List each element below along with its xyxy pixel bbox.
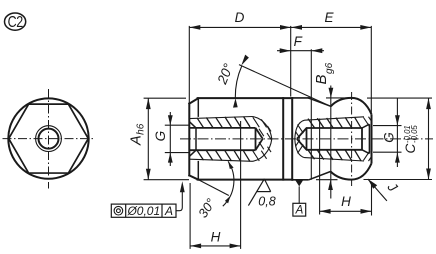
- label G right: [381, 132, 396, 143]
- front view outer circle: [8, 98, 88, 178]
- roughness symbol 0,8: [248, 179, 270, 206]
- right hole: thread slashes bottom band: [308, 150, 361, 161]
- label A h6: [129, 123, 147, 146]
- 20 deg arc: [235, 66, 242, 98]
- concentricity frame: [111, 204, 176, 217]
- svg-text:D: D: [235, 10, 245, 25]
- C2 logo: [5, 13, 26, 30]
- svg-text:C2: C2: [8, 14, 24, 32]
- datum A symbol: [295, 180, 303, 187]
- front view hexagon: [9, 104, 89, 173]
- left hole: thread band outer lines: [189, 117, 252, 162]
- right hole: mouth chamfers: [362, 124, 369, 153]
- label 20deg: [214, 61, 236, 87]
- dimension C: [364, 98, 433, 179]
- right hole: thread band outer lines: [305, 117, 365, 161]
- dimension G left: [165, 112, 190, 166]
- left head outline: [189, 98, 292, 180]
- dimension G right: [373, 98, 402, 167]
- dimension F: [277, 49, 324, 180]
- svg-text:A: A: [164, 204, 173, 218]
- 20 deg construction line: [239, 65, 331, 107]
- dimension D/E line: [189, 26, 371, 113]
- right hole: hatch near mouth: [364, 117, 372, 161]
- left head chamfer edge lines: [197, 98, 199, 179]
- frame leader: [176, 185, 182, 211]
- J leader: [368, 179, 387, 201]
- front view hole circles: [36, 126, 62, 152]
- left hole: runout pocket boundary: [253, 117, 272, 162]
- dimension H right: [320, 119, 372, 216]
- left hole: thread slashes top band: [197, 117, 250, 128]
- left hole: thread slashes bottom band: [197, 150, 250, 161]
- ball vertical centerline: [351, 92, 353, 186]
- svg-text:Ø0,01: Ø0,01: [126, 204, 160, 218]
- svg-text:H: H: [211, 230, 221, 245]
- svg-text:C: C: [403, 144, 418, 154]
- svg-text:E: E: [324, 10, 334, 25]
- dimension H left: [190, 121, 241, 249]
- right hole: runout pocket boundary: [295, 120, 305, 157]
- dimension A: [144, 98, 189, 180]
- front view centerlines: [3, 89, 95, 189]
- label C with tolerances: [403, 125, 419, 154]
- 30 deg construction line: [199, 161, 234, 206]
- right hole: thread slashes top band: [308, 117, 361, 128]
- label 30deg: [195, 196, 218, 221]
- svg-text:A: A: [295, 205, 304, 217]
- svg-text:G: G: [381, 132, 396, 143]
- svg-text:H: H: [341, 194, 351, 209]
- neck 20deg cone surfaces: [308, 98, 331, 107]
- D/E arrows: [189, 25, 371, 30]
- svg-text:G: G: [153, 131, 168, 142]
- right hole: minor bore: [297, 128, 362, 150]
- left hole end: hatch in runout pocket: [253, 117, 272, 161]
- label G left: [153, 131, 168, 142]
- dimension B leader arrows: [316, 86, 354, 199]
- neck outline: [292, 98, 310, 180]
- svg-text:F: F: [294, 34, 303, 49]
- svg-text:0,8: 0,8: [258, 195, 275, 209]
- section axis centerline: [180, 138, 433, 140]
- right hole: hatch near cone end: [296, 125, 304, 154]
- left hole: mouth chamfers: [189, 122, 196, 157]
- svg-text:-0,05: -0,05: [410, 125, 419, 143]
- ball outline: [331, 98, 372, 180]
- left hole: minor bore: [189, 128, 262, 150]
- label B g6: [313, 62, 335, 84]
